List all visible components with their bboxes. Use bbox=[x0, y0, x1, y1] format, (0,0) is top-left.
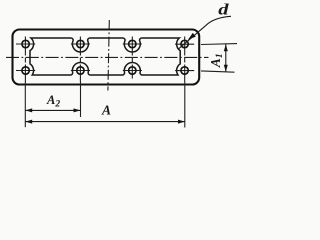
horizontal axis centerline bbox=[6, 56, 209, 58]
hole crosshair h row1 col1 bbox=[16, 43, 35, 45]
hole top row col2 bbox=[77, 40, 84, 47]
dimension line A2 bbox=[25, 109, 80, 111]
hole column centerline 3 bbox=[131, 37, 133, 79]
dimension line A1 bbox=[225, 44, 227, 71]
hole bottom row col1 bbox=[22, 67, 29, 74]
hole bottom row col2 bbox=[77, 67, 84, 74]
extension line right bottom (hole row2 col4) bbox=[201, 71, 235, 72]
leader arrowhead bbox=[188, 33, 196, 40]
svg-text:A: A bbox=[101, 102, 111, 117]
arrow A right bbox=[178, 120, 185, 124]
hole crosshair h row2 col2 bbox=[71, 70, 90, 72]
dimension line A bbox=[25, 121, 185, 123]
hole crosshair h row1 col3 bbox=[123, 43, 142, 45]
arrow A1 bottom bbox=[224, 65, 228, 72]
arrow A2 left bbox=[25, 108, 32, 112]
hole bottom row col4 bbox=[181, 67, 188, 74]
arrow A2 right bbox=[74, 108, 81, 112]
hole top row col4 bbox=[181, 40, 188, 47]
svg-text:d: d bbox=[218, 1, 229, 18]
arrow A left bbox=[25, 120, 32, 124]
hole crosshair h row1 col2 bbox=[71, 43, 90, 45]
arrow A1 top bbox=[224, 44, 228, 51]
hole column centerline 2 bbox=[79, 37, 81, 83]
hole top row col1 bbox=[22, 40, 29, 47]
hole column centerline 1 bbox=[24, 37, 26, 83]
plate outer outline bbox=[13, 30, 200, 85]
hole column centerline 4 bbox=[184, 37, 186, 83]
vertical axis centerline bbox=[108, 20, 109, 91]
hole bottom row col3 bbox=[129, 67, 136, 74]
inner pocket contour with scallops bbox=[30, 38, 180, 75]
leader line d bbox=[178, 16, 231, 49]
hole crosshair h row2 col3 bbox=[123, 70, 142, 72]
hole crosshair h row2 col1 bbox=[16, 70, 35, 72]
hole crosshair h row2 col4 bbox=[175, 70, 194, 72]
hole crosshair h row1 col4 bbox=[175, 43, 194, 45]
extension line right top (hole row1 col4) bbox=[201, 43, 237, 46]
hole top row col3 bbox=[129, 40, 136, 47]
